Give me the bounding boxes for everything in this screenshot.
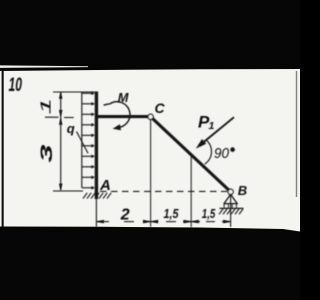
svg-text:1: 1 — [209, 120, 215, 132]
svg-text:C: C — [155, 100, 166, 116]
svg-text:90: 90 — [214, 145, 230, 162]
svg-text:1: 1 — [38, 98, 54, 115]
svg-text:A: A — [99, 177, 111, 194]
svg-text:1,5: 1,5 — [164, 207, 180, 221]
svg-text:3: 3 — [38, 144, 56, 163]
svg-text:B: B — [238, 183, 247, 198]
svg-text:2: 2 — [120, 206, 130, 223]
svg-text:1,5: 1,5 — [202, 207, 216, 221]
svg-text:10: 10 — [9, 75, 23, 96]
svg-text:M: M — [118, 90, 129, 105]
svg-text:q: q — [67, 121, 75, 136]
